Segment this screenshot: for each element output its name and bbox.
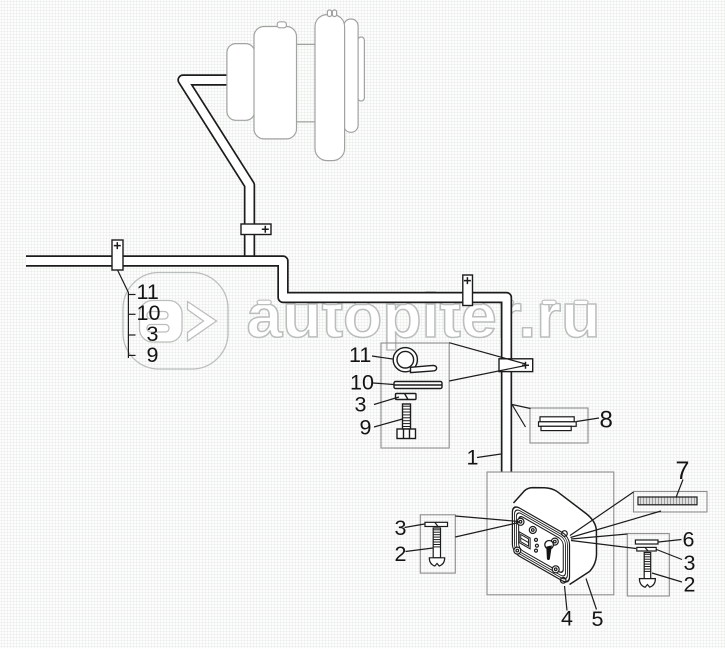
svg-text:2: 2 — [395, 542, 407, 566]
svg-text:11: 11 — [349, 343, 371, 367]
svg-text:9: 9 — [147, 343, 159, 367]
svg-text:8: 8 — [600, 407, 613, 434]
svg-text:7: 7 — [676, 457, 690, 485]
svg-text:10: 10 — [350, 371, 374, 395]
svg-text:9: 9 — [360, 416, 372, 440]
svg-text:1: 1 — [467, 446, 479, 470]
svg-text:3: 3 — [684, 551, 696, 575]
svg-text:2: 2 — [684, 573, 696, 597]
svg-text:5: 5 — [592, 607, 604, 631]
svg-text:4: 4 — [561, 607, 573, 631]
svg-text:3: 3 — [395, 516, 407, 540]
svg-text:3: 3 — [355, 393, 367, 417]
svg-text:6: 6 — [683, 528, 695, 552]
